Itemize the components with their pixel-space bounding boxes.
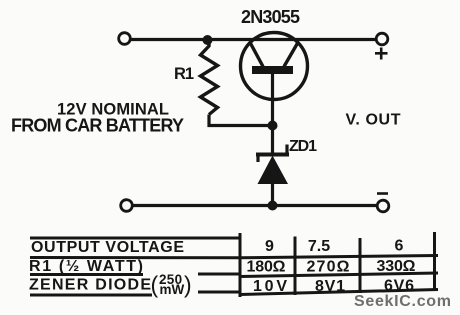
svg-text:9: 9 — [265, 238, 274, 255]
svg-text:SeekIC.com: SeekIC.com — [354, 293, 451, 310]
plus sign — [375, 48, 388, 60]
terminal input bottom-left — [121, 200, 133, 212]
table dash R1 row to column — [198, 273, 241, 276]
table bottom line right — [240, 290, 438, 295]
svg-text:): ) — [184, 272, 192, 298]
node base junction dot — [268, 121, 278, 131]
table underline under ZENER DIODE label — [30, 294, 152, 297]
svg-text:7.5: 7.5 — [308, 238, 330, 255]
transistor Q1 2N3055 — [241, 33, 308, 126]
table row line under resistor values — [240, 273, 438, 277]
wire top rail — [131, 38, 376, 41]
table vertical divider col 2-3 — [359, 238, 362, 293]
table top border left — [30, 237, 240, 240]
svg-text:8V1: 8V1 — [315, 278, 345, 295]
resistor R1 — [201, 40, 218, 115]
node junction dot top of R1 — [203, 35, 213, 45]
wire R1 bottom to base node — [209, 115, 273, 126]
svg-text:R1 (½ WATT): R1 (½ WATT) — [29, 258, 143, 275]
svg-text:OUTPUT VOLTAGE: OUTPUT VOLTAGE — [31, 239, 184, 256]
svg-text:330Ω: 330Ω — [377, 258, 416, 275]
svg-text:2N3055: 2N3055 — [241, 7, 300, 27]
terminal output plus top-right — [376, 33, 388, 45]
svg-text:6: 6 — [395, 238, 404, 255]
svg-text:6V6: 6V6 — [384, 278, 414, 295]
table vertical right edge — [433, 232, 436, 291]
svg-text:FROM CAR BATTERY: FROM CAR BATTERY — [11, 116, 184, 136]
table row line under OUTPUT VOLTAGE — [30, 256, 438, 258]
svg-text:mW: mW — [160, 282, 185, 297]
table 250 mW stacked — [151, 272, 192, 298]
svg-text:ZD1: ZD1 — [289, 138, 317, 155]
wire bottom rail — [133, 204, 377, 207]
terminal input top-left — [119, 33, 131, 45]
zener diode ZD1 — [256, 126, 289, 206]
table vertical divider col 1-2 — [294, 237, 297, 296]
svg-text:270Ω: 270Ω — [307, 259, 350, 276]
svg-text:180Ω: 180Ω — [247, 259, 286, 276]
svg-text:V. OUT: V. OUT — [346, 112, 401, 129]
svg-text:ZENER DIODE: ZENER DIODE — [29, 277, 151, 294]
svg-text:R1: R1 — [174, 65, 194, 83]
terminal output minus bottom-right — [377, 200, 389, 212]
minus sign — [377, 192, 388, 195]
table vertical main divider — [239, 233, 242, 297]
table underline under R1 row label — [30, 273, 143, 276]
svg-text:10V: 10V — [253, 278, 287, 295]
table dash zener row to column — [198, 291, 241, 294]
svg-text:(: ( — [151, 272, 159, 298]
node junction dot bottom rail — [268, 201, 278, 211]
